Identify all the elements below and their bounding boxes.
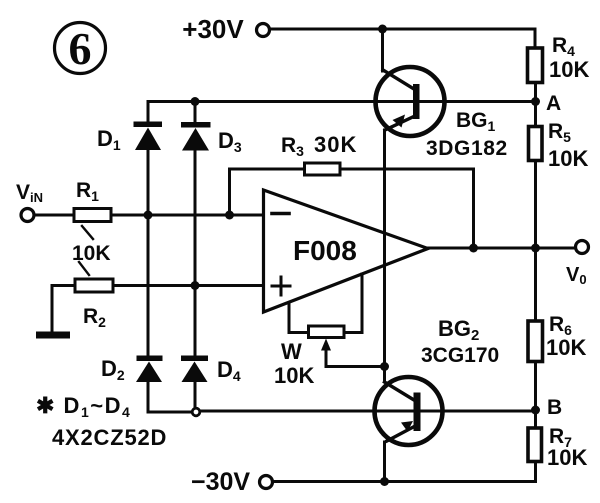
junction D3 top [191,97,200,106]
wire BG2 base to node B [200,410,536,413]
svg-text:−30V: −30V [191,468,250,496]
junction BG2 emitter / -30V rail [380,477,389,486]
wire right rail R6 to B [534,362,537,429]
wire right rail output to R6 [534,248,537,321]
+30V supply terminal [257,24,270,37]
wire BG1 collector [381,29,384,71]
wire output [428,247,575,250]
svg-text:10K: 10K [546,335,586,360]
pointer 10K to R2 [79,262,89,275]
wire BG1 emitter to BG2 collector [383,130,386,380]
diode D3 [181,102,211,151]
op-amp U1 F008 [264,190,429,312]
ground [36,332,70,339]
junction diode bottoms (open) [192,408,200,416]
resistor R7 [528,428,542,462]
junction feedback / output [469,244,478,253]
junction D3 string / plus input [191,281,200,290]
input terminal ViN [21,209,34,222]
resistor R1 [74,209,111,222]
wire R2 to op-amp plus input [113,284,263,287]
svg-text:+30V: +30V [182,14,244,44]
svg-text:F008: F008 [293,235,357,266]
wire base rail top (D1/D3 tops to node A) [148,102,536,123]
wire right rail R4-R5 [534,83,537,127]
svg-text:10K: 10K [547,445,587,470]
resistor R5 [529,127,543,161]
wire D3/D4 string vertical [194,151,197,357]
junction D1 string / minus input [144,211,153,220]
potentiometer W [309,326,345,364]
wire D1/D2 string vertical [147,150,150,356]
pointer R1 to 10K [82,226,93,239]
wire right rail bottom [273,462,536,482]
wire op-amp offset pin right [344,274,362,333]
junction +30V / BG1 collector [378,25,387,34]
resistor R3 [305,163,341,175]
svg-text:30K: 30K [314,132,357,157]
svg-text:6: 6 [69,23,92,74]
node B [531,406,540,415]
svg-text:A: A [546,92,561,115]
wire input to R1 [35,214,75,217]
svg-text:W: W [281,339,302,364]
wire BG2 emitter down [383,442,386,482]
resistor R6 [528,321,543,362]
resistor R4 [528,48,543,83]
wire D4 bottom [194,382,197,408]
transistor BG1 [376,67,445,136]
svg-text:10K: 10K [549,57,589,82]
svg-text:4X2CZ52D: 4X2CZ52D [52,425,167,450]
junction right rail / output [531,244,540,253]
output terminal V0 [576,241,589,254]
-30V supply terminal [260,476,273,489]
resistor R2 [75,279,113,292]
figure number badge 6 [55,23,106,75]
wire feedback left (R3 to minus input) [230,169,305,215]
wire R1 to op-amp minus input [111,214,263,217]
wire ground branch [52,286,75,332]
wire feedback right (R3 to output) [340,169,474,248]
wire right rail R5 to output [534,161,537,249]
wire +30V rail [270,29,535,48]
svg-text:10K: 10K [548,146,588,171]
wire D2 bottom [148,382,192,412]
wire wiper to rail [326,364,385,367]
diode D2 [136,356,163,383]
svg-text:3CG170: 3CG170 [421,344,499,367]
svg-text:3DG182: 3DG182 [426,137,508,160]
diode D4 [181,356,208,383]
node A [531,97,540,106]
junction feedback / minus input [225,211,234,220]
wire op-amp offset pin left [289,303,309,333]
junction wiper / rail [380,362,389,371]
diode D1 [134,122,163,151]
svg-text:10K: 10K [274,363,314,388]
transistor BG2 [375,377,443,445]
svg-text:B: B [547,396,562,419]
